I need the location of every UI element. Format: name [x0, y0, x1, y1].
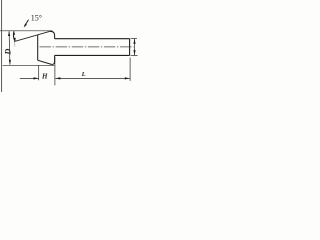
arrowhead D top: [8, 31, 10, 36]
svg-text:D: D: [3, 48, 12, 55]
svg-text:L: L: [81, 71, 86, 78]
left border line: [1, 0, 3, 92]
angle dimension arc: [13, 31, 15, 41]
svg-text:H: H: [41, 72, 48, 80]
arrowhead leader 15deg: [24, 24, 27, 28]
arrowhead angle arc bottom: [14, 38, 16, 42]
15 deg slant arm (head cone edge extended): [14, 31, 52, 42]
arrowhead L left (pointing left): [55, 77, 60, 79]
d extension stub bottom: [131, 55, 138, 57]
extension line top (head max diameter): [0, 30, 52, 32]
dimension line D: [8, 31, 11, 64]
d extension stub top: [131, 37, 137, 39]
center line: [40, 46, 134, 48]
shank top edge: [55, 38, 130, 40]
H right extension line / head right face extended: [54, 57, 56, 85]
arrowhead D bottom: [9, 60, 11, 65]
H left extension line: [38, 66, 40, 81]
svg-text:15°: 15°: [31, 14, 42, 23]
head bottom edge: [38, 55, 55, 64]
arrowhead d top (pointing up): [133, 39, 135, 44]
shank bottom edge: [55, 54, 130, 56]
arrowhead L right (pointing right): [125, 77, 130, 79]
arrowhead angle arc top: [13, 31, 15, 35]
arrowhead H left (pointing right): [34, 77, 39, 79]
H dimension line left segment: [20, 77, 39, 79]
head left face: [37, 35, 39, 61]
faint tail below angle arc: [14, 42, 16, 47]
rivet technical drawing 138x92: [0, 0, 138, 92]
extension line bottom (head max diameter): [3, 64, 55, 66]
shank end face: [129, 39, 131, 56]
d dimension line: [134, 39, 136, 55]
L right extension line: [129, 58, 131, 81]
L dimension line: [55, 77, 129, 79]
head top corner fillet and right face top: [50, 31, 55, 39]
arrowhead d bottom (pointing down): [133, 50, 135, 55]
leader from 15 deg label: [25, 20, 29, 26]
